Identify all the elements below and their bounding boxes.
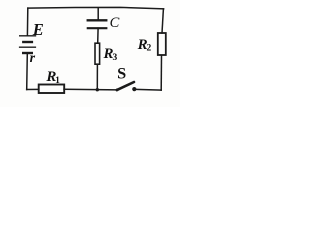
svg-text:C: C [110, 15, 120, 31]
svg-text:2: 2 [147, 43, 152, 53]
svg-text:1: 1 [55, 76, 60, 86]
svg-text:r: r [30, 51, 36, 66]
wire bottom left [27, 88, 39, 90]
capacitor C [88, 20, 107, 28]
wire capacitor to R3 [97, 28, 99, 43]
switch S [116, 82, 137, 91]
svg-text:S: S [117, 64, 126, 83]
wire right upper [162, 9, 163, 33]
svg-text:3: 3 [113, 53, 118, 63]
wire right lower [160, 56, 162, 91]
wire top [28, 7, 164, 8]
wire left lower (battery to bottom) [26, 54, 29, 90]
resistor R1 [39, 85, 64, 94]
battery E,r [20, 36, 36, 53]
wire capacitor top stub [97, 8, 99, 19]
wire R3 to bottom [96, 65, 98, 90]
wire bottom right [136, 88, 161, 91]
resistor R3 [95, 43, 100, 64]
wire left upper (to battery) [26, 8, 28, 36]
wire bottom middle [64, 88, 117, 91]
resistor R2 [158, 33, 166, 55]
node junction (R3 / bottom wire) [96, 88, 99, 91]
svg-text:E: E [32, 20, 44, 39]
